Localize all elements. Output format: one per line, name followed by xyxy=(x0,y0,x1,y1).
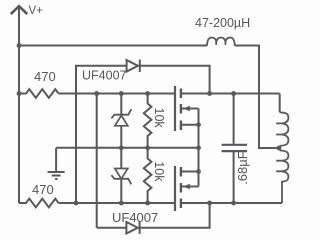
node cap top junction xyxy=(231,91,236,96)
wire gate B rail xyxy=(59,202,175,204)
node V+ to R1 junction xyxy=(17,91,22,96)
svg-text:V+: V+ xyxy=(29,5,44,17)
wire gate A rail xyxy=(59,93,175,95)
svg-text:470: 470 xyxy=(34,69,56,84)
node ground / 10k junction xyxy=(145,145,150,150)
wire ground rail xyxy=(56,147,198,149)
svg-text:47-200µH: 47-200µH xyxy=(195,16,250,30)
capacitor C1 0.68uF xyxy=(222,94,248,204)
node gate A / zener Z1 junction xyxy=(119,91,124,96)
V+ supply arrow xyxy=(11,6,27,46)
svg-text:UF4007: UF4007 xyxy=(82,68,127,82)
wire D1 cathode to drain A xyxy=(140,66,210,94)
transistor Q2 MOSFET (lower, mirrored) xyxy=(175,148,282,211)
svg-text:.68µF: .68µF xyxy=(235,151,250,185)
primary coil L2 upper half xyxy=(276,94,288,151)
diode D2 UF4007 (bottom) xyxy=(126,222,139,234)
node ground / sources junction xyxy=(196,145,201,150)
diode D1 UF4007 (top) xyxy=(127,60,140,72)
zener Z1 (upper) xyxy=(111,94,131,148)
svg-text:470: 470 xyxy=(32,182,54,197)
wire V+ rail vertical xyxy=(18,46,20,204)
svg-text:UF4007: UF4007 xyxy=(112,210,158,225)
svg-text:10k: 10k xyxy=(152,161,166,182)
primary coil L2 lower half xyxy=(276,150,288,203)
wire inductor to right corner down to center tap xyxy=(235,46,278,149)
wire top cross-coupling row with corner at left xyxy=(76,66,127,203)
resistor R3 10k (upper) xyxy=(144,94,152,148)
node center tap junction xyxy=(277,146,282,151)
node D1 riser / drain A junction xyxy=(207,91,212,96)
node cap bottom junction xyxy=(231,201,236,206)
node gate B / column A junction xyxy=(74,201,79,206)
node V+ top junction xyxy=(17,43,22,48)
inductor L1 47-200uH xyxy=(207,38,235,46)
resistor R2 470 (bottom) xyxy=(19,199,59,208)
resistor R1 470 (top) xyxy=(19,89,59,98)
wire drain A rail xyxy=(182,93,280,95)
node gate B / resistor R4 junction xyxy=(145,201,150,206)
zener Z2 (lower) xyxy=(111,148,131,203)
node ground / zener junction xyxy=(119,145,124,150)
node gate A / column B junction xyxy=(94,91,99,96)
node gate A / resistor R3 junction xyxy=(145,91,150,96)
wire column B gate A to bottom diode row xyxy=(96,94,98,228)
node gate B / zener Z2 junction xyxy=(119,201,124,206)
ground symbol xyxy=(48,148,65,179)
wire bottom cross-coupling row xyxy=(97,227,127,229)
wire D2 cathode riser to drain B xyxy=(140,203,210,228)
transistor Q1 MOSFET (upper) xyxy=(175,86,210,148)
wire top rail to inductor xyxy=(19,45,207,47)
resistor R4 10k (lower) xyxy=(144,148,152,203)
svg-text:10k: 10k xyxy=(152,108,166,129)
node D2 riser / drain B junction xyxy=(207,201,212,206)
